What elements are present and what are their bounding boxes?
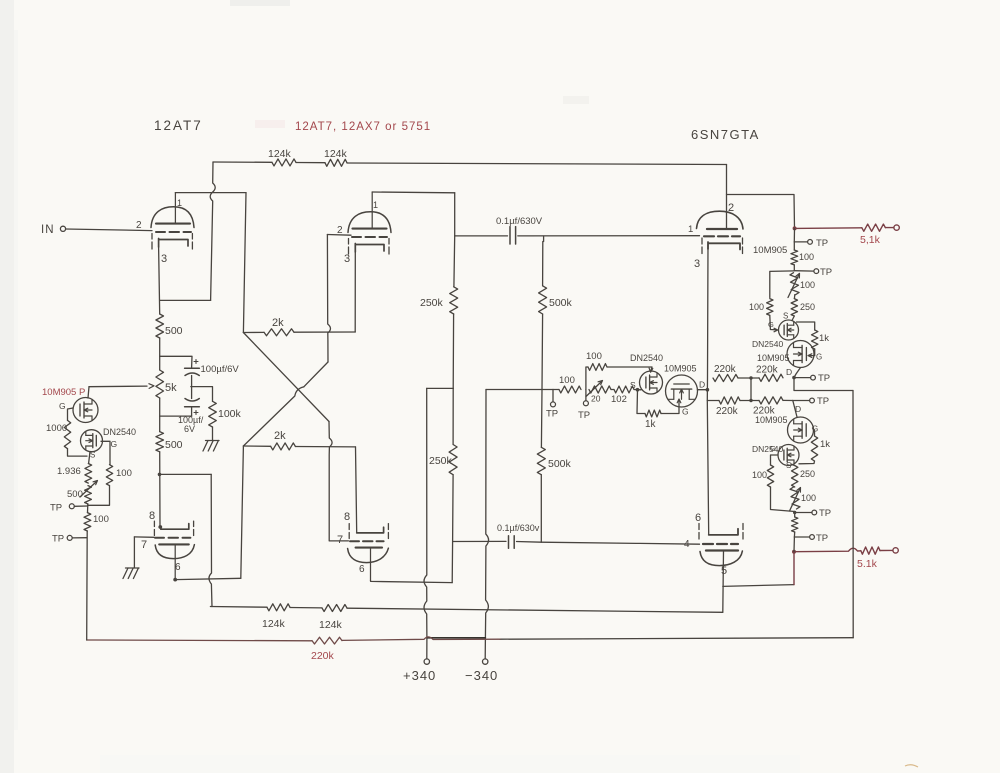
test point TP2 (upper CCS)	[794, 265, 832, 278]
resistor 2k (upper)	[243, 317, 355, 336]
resistor 1k (driver gate)	[637, 390, 689, 430]
svg-text:S: S	[786, 461, 791, 470]
svg-text:4: 4	[684, 539, 690, 550]
resistor 250k (lower)	[429, 388, 457, 474]
IN label	[41, 224, 55, 236]
wire cathode chain	[159, 338, 161, 370]
wire left leg to TP row	[771, 487, 795, 512]
wire drain row to feedback rail	[794, 378, 853, 391]
resistor 124k (lower first)	[262, 604, 290, 630]
resistor 100 (bias row)	[553, 375, 581, 393]
svg-text:G: G	[111, 439, 118, 449]
svg-text:D: D	[699, 380, 705, 390]
svg-text:124k: 124k	[262, 618, 286, 630]
tiny speck bottom right	[905, 765, 918, 767]
triode V1b (12AT7) pins 8,7,6	[141, 510, 194, 581]
wire M1 gate loop	[68, 408, 74, 420]
wire V1a plate row	[175, 192, 246, 194]
svg-text:TP: TP	[52, 534, 64, 545]
svg-text:D: D	[786, 367, 792, 377]
svg-text:1k: 1k	[645, 419, 657, 430]
wire 124k row left segment	[210, 606, 267, 609]
triode 6SN7 upper pins 2,1,3	[688, 202, 743, 270]
wire 1k to 10M905 gate	[808, 349, 822, 362]
svg-text:6: 6	[695, 512, 701, 524]
svg-text:20: 20	[591, 394, 601, 404]
svg-text:S: S	[90, 451, 95, 460]
svg-text:2: 2	[728, 202, 734, 214]
svg-text:5,1k: 5,1k	[860, 234, 881, 246]
wire V2a plate row	[372, 191, 455, 194]
svg-text:1.936: 1.936	[57, 466, 81, 477]
wire corner down with hop over lower 2k row	[329, 422, 348, 541]
resistor 500k (lower)	[537, 447, 571, 474]
wire bias chain to feedback row	[86, 531, 89, 640]
faint smudge near red title	[255, 120, 285, 128]
svg-text:250k: 250k	[429, 455, 453, 467]
svg-text:1: 1	[373, 200, 378, 210]
wire left branch (upper CCS)	[770, 271, 795, 298]
wire top rail to 6SN7 plate	[347, 163, 727, 165]
wire top rail left segment	[213, 161, 272, 163]
resistor (lower CCS bottom)	[792, 513, 798, 533]
svg-text:100: 100	[116, 468, 132, 479]
capacitor 0.1uF/630V (lower)	[453, 523, 700, 548]
test point TP (lower bias)	[52, 534, 87, 545]
wire 500k chain down	[541, 314, 542, 447]
wire IN to V1 grid	[66, 229, 152, 231]
resistor 1000	[46, 420, 71, 448]
svg-text:220k: 220k	[714, 364, 737, 375]
wire V2a grid to cross-couple vertical	[327, 234, 351, 237]
wire CCS top	[793, 228, 795, 242]
svg-text:+340: +340	[403, 668, 436, 683]
resistor 124k (lower second)	[290, 605, 347, 632]
svg-text:100: 100	[559, 375, 575, 386]
title 6SN7GTA	[691, 127, 760, 142]
svg-text:5: 5	[721, 565, 727, 577]
svg-text:12AT7: 12AT7	[154, 118, 203, 133]
svg-text:8: 8	[344, 511, 350, 523]
resistor 1k (lower CCS)	[799, 428, 830, 464]
wire V1b grid to ground	[134, 537, 154, 568]
wire M2 gate	[101, 441, 110, 464]
svg-text:100: 100	[586, 351, 602, 362]
svg-text:100: 100	[799, 252, 814, 262]
potentiometer 500	[67, 481, 98, 505]
resistor 500 (lower cathode)	[156, 432, 183, 452]
wire feedback row (left, maroon)	[87, 637, 500, 641]
resistor 500k (upper)	[539, 236, 573, 314]
potentiometer 5k	[156, 370, 177, 398]
svg-text:500k: 500k	[548, 458, 572, 470]
wire -340 rail down with hops	[485, 390, 488, 659]
wire B+ branch to CCS	[727, 195, 795, 229]
wire diagonal crossing hop to lower-left node	[243, 387, 303, 446]
resistor 220k (upper row A)	[713, 364, 738, 382]
svg-text:1k: 1k	[819, 333, 829, 344]
test point TP (drain row lower)	[793, 396, 830, 407]
svg-text:1: 1	[688, 224, 693, 235]
wire DN2540 to 1k	[797, 322, 815, 330]
svg-text:12AT7, 12AX7 or 5751: 12AT7, 12AX7 or 5751	[295, 121, 431, 133]
potentiometer 100 (lower CCS)	[790, 487, 817, 511]
wire V2a cathode lead	[354, 252, 356, 332]
svg-text:250: 250	[800, 469, 815, 479]
wire 500k to lower coupling row	[540, 475, 542, 543]
svg-text:100µf/6V: 100µf/6V	[201, 364, 240, 375]
svg-text:10M905: 10M905	[757, 353, 790, 363]
svg-text:100: 100	[752, 470, 767, 480]
svg-text:500: 500	[165, 439, 183, 451]
resistor 100 (upper CCS)	[791, 242, 814, 265]
svg-text:10M905 P: 10M905 P	[42, 387, 85, 398]
test point TP (lower CCS b)	[794, 532, 828, 544]
node B+ top (red)	[793, 226, 797, 230]
svg-text:6SN7GTA: 6SN7GTA	[691, 127, 760, 142]
svg-text:G: G	[816, 353, 822, 362]
resistor 102	[611, 386, 634, 405]
wire plate-node down to 2k node	[243, 193, 246, 333]
label 10M905 (lower 220k)	[755, 404, 801, 425]
svg-text:1k: 1k	[820, 439, 830, 450]
label 10M905 P (red)	[42, 387, 85, 398]
wire 10M905 drain to row	[792, 368, 800, 380]
wire link down to 124k row (hop over plate row)	[209, 474, 212, 606]
svg-text:10M905: 10M905	[664, 364, 697, 374]
wire 250 into DN2540	[792, 316, 794, 321]
resistor 100 (gate leg)	[106, 465, 132, 486]
potentiometer 100 (upper CCS)	[788, 273, 815, 298]
svg-text:10M905: 10M905	[755, 415, 788, 425]
resistor 220k (lower row B)	[740, 397, 793, 417]
label 10M905 (upper CCS)	[753, 245, 787, 256]
resistor 100k	[191, 387, 242, 440]
label 10M905 (upper 220k)	[757, 353, 790, 363]
wire 6SN7 cathode rail	[707, 245, 708, 535]
wire driver drain to cathode rail	[698, 388, 710, 392]
resistor 5.1k (top, red)	[862, 224, 894, 231]
wire link +340/-340 rails	[427, 637, 486, 639]
svg-text:G: G	[770, 444, 776, 453]
svg-text:S: S	[783, 312, 788, 321]
resistor 100 (left leg upper CCS)	[749, 299, 773, 316]
svg-text:3: 3	[694, 258, 700, 270]
5k wiper arrow	[89, 384, 154, 389]
resistor 100 (left leg lower CCS)	[752, 465, 774, 487]
wire diagonal upper-left node to corner	[243, 333, 329, 422]
resistor 1.936	[57, 452, 92, 484]
wire to V1b cathode	[158, 452, 163, 529]
svg-text:−340: −340	[465, 668, 498, 683]
resistor 100 (lower bias)	[84, 504, 109, 531]
wire 124k row to 6SN7 plate lead	[347, 608, 723, 612]
potentiometer 20	[586, 381, 611, 404]
mosfet DN2540 (driver)	[630, 353, 663, 394]
mosfet DN2540 (upper CCS)	[752, 320, 799, 349]
mosfet 10M905 (lower CCS)	[788, 417, 819, 443]
svg-text:250k: 250k	[420, 297, 444, 309]
svg-text:500: 500	[165, 325, 183, 337]
svg-text:TP: TP	[816, 533, 828, 544]
wire trim to DN2540 drain	[607, 367, 653, 372]
wire grid vertical with hop over 2k row	[327, 235, 330, 363]
svg-text:TP: TP	[818, 373, 830, 384]
svg-text:2k: 2k	[272, 317, 284, 329]
svg-text:TP: TP	[546, 409, 558, 420]
triode V2b (12AT7) pins 8,7,6	[337, 511, 388, 580]
wire V2b cathode lead up	[356, 447, 357, 533]
test point TP1 (upper CCS)	[794, 238, 828, 249]
terminal output bottom	[857, 548, 898, 570]
svg-text:TP: TP	[820, 267, 832, 278]
svg-text:TP: TP	[819, 508, 831, 519]
svg-text:124k: 124k	[268, 148, 292, 160]
svg-text:124k: 124k	[319, 619, 343, 631]
resistor 5.1k (bottom, red)	[861, 547, 893, 554]
wire branch up to 100 trim	[586, 367, 588, 390]
svg-text:2: 2	[136, 220, 142, 231]
svg-text:5.1k: 5.1k	[857, 558, 878, 570]
svg-text:220k: 220k	[716, 406, 739, 417]
wire 124k-node down to V1 cathode (hop over plate wire)	[210, 162, 215, 300]
test point TP (right)	[578, 390, 590, 422]
svg-text:6V: 6V	[184, 424, 195, 434]
svg-text:DN2540: DN2540	[752, 444, 783, 454]
wire lower-left node down to V1b plate row	[241, 446, 244, 578]
triode 6SN7 lower pins 6,4,5	[684, 512, 743, 577]
wire drain lead (lower CCS)	[793, 401, 797, 418]
svg-text:G: G	[682, 407, 689, 417]
input terminal	[60, 226, 65, 231]
resistor 124k first	[268, 148, 296, 166]
wire V2a plate-row corner down	[454, 193, 456, 236]
resistor 100 (upper trim)	[586, 351, 607, 370]
wire V2b plate row with hop over +340 line	[371, 580, 453, 582]
wire +340 branch	[427, 387, 454, 389]
svg-text:100: 100	[93, 514, 109, 525]
wire lower CCS to output node	[793, 537, 795, 552]
svg-text:1: 1	[177, 198, 182, 208]
capacitor 100uF/6V (lower)	[160, 399, 204, 435]
wire CCS drain lead	[88, 387, 89, 398]
svg-text:2k: 2k	[274, 430, 286, 442]
wire feedback row (right, gray)	[500, 638, 853, 640]
terminal +340	[403, 659, 436, 683]
ground (100k)	[203, 441, 219, 452]
svg-text:500k: 500k	[549, 297, 573, 309]
test point TP (left)	[546, 390, 558, 420]
wire 6SN7 plate lead up	[726, 165, 728, 230]
node output bottom (red)	[792, 550, 796, 554]
wire 250k bottom to coupling row	[451, 475, 454, 583]
svg-text:100: 100	[749, 302, 764, 312]
test point TP (drain row upper)	[794, 373, 830, 384]
svg-text:TP: TP	[50, 503, 62, 514]
svg-text:8: 8	[149, 510, 155, 522]
wire gate leg to DN2540	[768, 315, 778, 331]
resistor 1k (upper CCS)	[812, 330, 830, 349]
ground (V1b grid)	[123, 568, 139, 579]
svg-text:220k: 220k	[311, 650, 335, 662]
wire cathode node to 124k row link	[160, 473, 212, 475]
wire output top (red)	[795, 227, 862, 230]
wire 1000 to source node	[68, 449, 88, 456]
faint pencil smudge top middle	[563, 96, 589, 104]
node S (driver)	[630, 380, 641, 392]
wire V1b plate row	[175, 578, 241, 579]
svg-text:TP: TP	[578, 410, 590, 421]
mosfet 10M905 (driver)	[664, 364, 705, 408]
svg-text:100: 100	[800, 280, 815, 290]
svg-text:S: S	[630, 380, 636, 390]
svg-text:DN2540: DN2540	[103, 427, 136, 437]
capacitor 0.1uF/630V (upper)	[455, 216, 700, 244]
svg-text:0.1µf/630V: 0.1µf/630V	[496, 216, 543, 227]
wire plate node to output rail	[723, 585, 794, 587]
resistor 2k (lower)	[243, 430, 355, 450]
resistor 124k second	[296, 148, 348, 166]
svg-text:DN2540: DN2540	[752, 339, 783, 349]
svg-text:1000: 1000	[46, 423, 67, 434]
resistor 500 (upper cathode)	[156, 247, 183, 338]
svg-text:220k: 220k	[756, 365, 779, 376]
svg-text:100: 100	[801, 493, 816, 503]
wire gate leg to TP row	[88, 486, 110, 506]
svg-text:TP: TP	[816, 238, 828, 249]
svg-text:500: 500	[67, 489, 83, 500]
svg-text:124k: 124k	[324, 148, 348, 160]
svg-text:3: 3	[161, 253, 167, 265]
title 12AT7	[154, 118, 203, 133]
mosfet DN2540 (lower CCS)	[752, 444, 799, 466]
terminal -340	[465, 659, 498, 683]
test point TP (bias)	[50, 503, 88, 514]
mosfet M2 DN2540	[81, 427, 137, 460]
wire 250k chain	[452, 314, 454, 388]
wire gate stub (lower CCS)	[770, 444, 778, 465]
mosfet M1 10M905	[59, 398, 98, 423]
svg-text:3: 3	[344, 253, 350, 265]
svg-text:IN: IN	[41, 224, 55, 236]
resistor 250k (upper)	[420, 236, 458, 314]
mosfet 10M905 (upper CCS)	[787, 341, 814, 368]
svg-text:DN2540: DN2540	[630, 353, 663, 363]
terminal output top	[860, 225, 899, 246]
svg-text:7: 7	[337, 534, 343, 546]
wire feedback rail down	[852, 391, 854, 638]
resistor 250 (upper CCS)	[783, 295, 815, 321]
svg-text:TP: TP	[817, 396, 829, 407]
triode V2a (12AT7/12AX7) pins 1,2,3	[337, 192, 391, 265]
svg-text:0.1µf/630v: 0.1µf/630v	[497, 523, 540, 533]
wire -340 bias row	[486, 389, 553, 391]
wire junction to cathode	[160, 299, 211, 301]
svg-text:102: 102	[611, 394, 627, 405]
svg-text:6: 6	[175, 562, 181, 573]
svg-text:250: 250	[800, 302, 815, 312]
svg-text:G: G	[768, 320, 774, 329]
resistor 220k (lower row A)	[707, 397, 740, 417]
svg-text:7: 7	[141, 539, 147, 551]
triode V1a (12AT7) pins 1,2,3	[136, 193, 194, 265]
svg-text:5k: 5k	[165, 382, 177, 394]
svg-text:6: 6	[359, 564, 365, 575]
svg-text:100k: 100k	[218, 408, 242, 420]
resistor 220k (feedback)	[311, 637, 342, 662]
title 12AT7,12AX7 or 5751 (red)	[295, 121, 431, 133]
svg-text:G: G	[59, 401, 66, 411]
resistor 250 (lower CCS)	[786, 461, 815, 487]
wire 5k to lower 500	[159, 398, 161, 432]
wire diagonal (grid of V2a) to crossing	[304, 362, 328, 387]
wire output bottom with hop (red)	[794, 548, 861, 552]
wire +340 rail down with hops	[424, 388, 427, 658]
wire 6SN7 lower plate lead	[722, 551, 725, 612]
resistor 220k (upper row B)	[738, 365, 792, 382]
test point TP (lower CCS a)	[793, 508, 831, 519]
svg-text:10M905: 10M905	[753, 245, 787, 256]
capacitor 100uF/6V (upper)	[160, 356, 240, 398]
wire output red drop	[793, 552, 795, 585]
wire 220k rows link	[750, 378, 752, 401]
